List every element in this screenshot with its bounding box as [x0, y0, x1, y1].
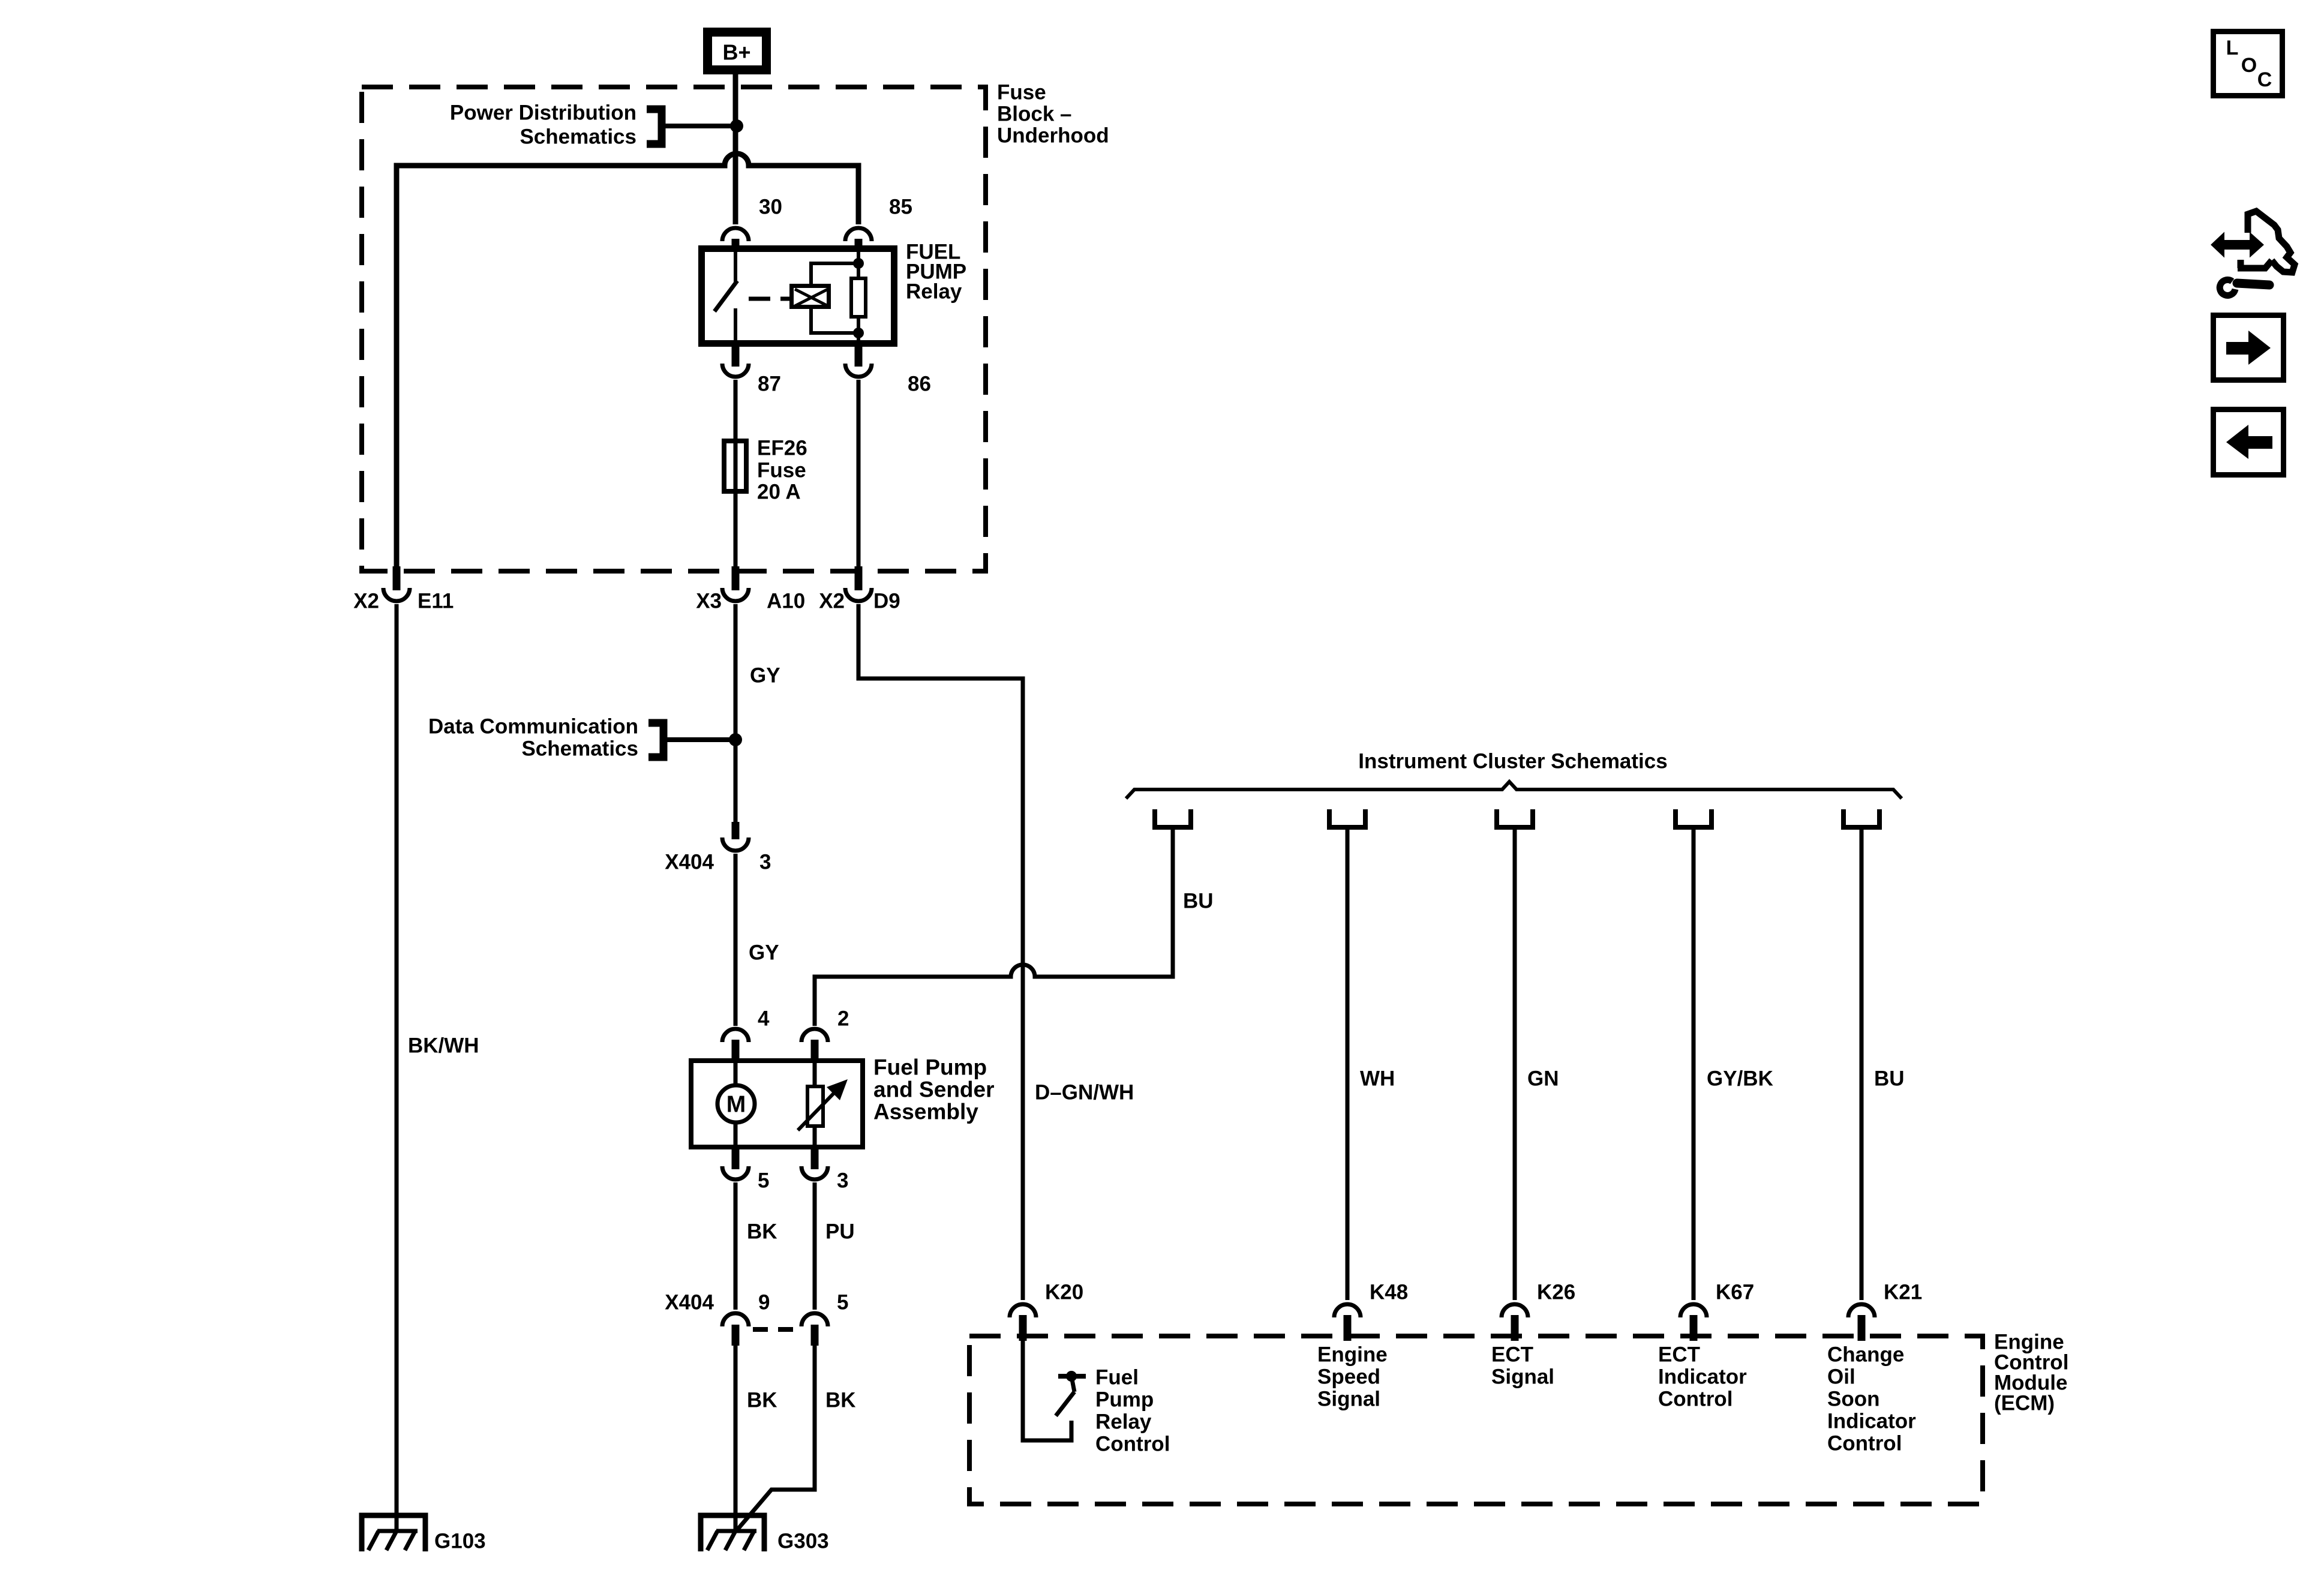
svg-text:Schematics: Schematics: [521, 737, 638, 761]
wire: D-GN/WH from D9 to ECM K20: [858, 604, 1134, 1300]
connector: fuel pump sender pin 3 terminal: [801, 1147, 848, 1193]
connector: X3 pin A10: [696, 566, 805, 613]
svg-text:D–GN/WH: D–GN/WH: [1035, 1081, 1134, 1104]
svg-text:Change: Change: [1827, 1343, 1904, 1367]
ground G303: [701, 1515, 829, 1553]
svg-text:Instrument Cluster Schematics: Instrument Cluster Schematics: [1358, 750, 1667, 773]
svg-text:Soon: Soon: [1827, 1388, 1879, 1411]
wire: GY from A10 to X404 pin 3: [735, 604, 780, 823]
fuse block - underhood (dashed outline): [362, 87, 986, 571]
svg-text:86: 86: [908, 373, 931, 396]
icon: LOC locator box: [2214, 32, 2283, 96]
svg-text:G303: G303: [777, 1530, 829, 1553]
relay switch contact (pin 30 to 87): [714, 249, 737, 343]
connector drop: instrument cluster WH drop: [1329, 809, 1365, 827]
svg-text:85: 85: [889, 196, 912, 219]
label: Fuse Block - Underhood: [997, 81, 1109, 148]
svg-text:3: 3: [759, 851, 771, 874]
label: Engine Speed Signal (K48): [1317, 1343, 1388, 1411]
icon: back arrow box: [2214, 410, 2284, 475]
svg-text:WH: WH: [1360, 1067, 1395, 1091]
svg-text:20 A: 20 A: [757, 481, 801, 504]
wire: BU from instrument cluster to fuel pump sender pin 2 (hops over D-GN/WH): [815, 827, 1214, 1026]
connector: ECM pin K20: [1010, 1281, 1083, 1341]
reference bracket: Power Distribution Schematics: [450, 101, 733, 149]
connector: relay pin 87 terminal: [722, 342, 781, 396]
svg-text:Relay: Relay: [906, 280, 962, 304]
svg-text:Control: Control: [1827, 1432, 1902, 1455]
power symbol B+ (battery feed box): [708, 32, 767, 70]
icon: connector end view with double arrow: [2212, 211, 2295, 272]
wire: BK from X404 pin 5 to ground G303 (jog): [737, 1346, 856, 1530]
wire: GY from X404 pin 3 to fuel pump pin 4: [735, 854, 779, 1026]
connector: X2 pin D9: [819, 566, 900, 613]
svg-text:2: 2: [837, 1007, 849, 1031]
svg-text:Underhood: Underhood: [997, 124, 1109, 148]
connector drop: instrument cluster BU drop: [1155, 809, 1191, 827]
svg-text:BK: BK: [747, 1389, 777, 1412]
svg-text:Relay: Relay: [1095, 1410, 1152, 1434]
fuse EF26 20A: [724, 437, 807, 504]
svg-text:Indicator: Indicator: [1827, 1410, 1916, 1433]
svg-text:B+: B+: [722, 40, 750, 65]
svg-text:BK: BK: [825, 1389, 856, 1412]
connector: fuel pump pin 5 terminal: [722, 1147, 769, 1193]
connector drop: instrument cluster BU drop 2: [1843, 809, 1879, 827]
svg-text:Indicator: Indicator: [1658, 1365, 1747, 1389]
connector drop: instrument cluster GN drop: [1497, 809, 1533, 827]
svg-text:GY: GY: [750, 664, 780, 688]
svg-text:GN: GN: [1527, 1067, 1559, 1091]
connector: X2 pin E11: [353, 566, 454, 613]
connector: X404 pin 9: [665, 1291, 770, 1346]
relay coil (box with X): [792, 263, 858, 333]
node: coil top junction dot: [853, 258, 864, 269]
connector: X404 pin 3: [665, 822, 771, 874]
svg-text:BK/WH: BK/WH: [408, 1034, 479, 1058]
svg-text:GY: GY: [749, 941, 779, 965]
connector: fuel pump sender pin 2 terminal: [801, 1007, 849, 1064]
reference bracket: Data Communication Schematics: [428, 715, 732, 761]
ECM driver: fuel pump relay control: [1023, 1341, 1170, 1456]
svg-text:K20: K20: [1045, 1281, 1083, 1304]
connector: relay pin 85 terminal: [845, 196, 912, 251]
svg-text:Schematics: Schematics: [520, 125, 636, 149]
svg-text:Fuse: Fuse: [997, 81, 1046, 104]
svg-text:Signal: Signal: [1317, 1388, 1380, 1411]
svg-text:E11: E11: [418, 590, 454, 613]
connector drop: instrument cluster GY/BK drop: [1676, 809, 1712, 827]
svg-text:K67: K67: [1716, 1281, 1754, 1304]
svg-text:X404: X404: [665, 851, 714, 874]
svg-text:9: 9: [758, 1291, 770, 1314]
svg-text:3: 3: [837, 1169, 848, 1193]
svg-text:Block –: Block –: [997, 103, 1072, 126]
sender variable resistor: [798, 1061, 848, 1147]
svg-text:Signal: Signal: [1491, 1365, 1554, 1389]
connector: fuel pump pin 4 terminal: [722, 1007, 770, 1064]
ground G103: [362, 1515, 486, 1553]
relay: FUEL PUMP Relay box: [702, 241, 967, 344]
fuel pump and sender assembly box: [691, 1055, 995, 1148]
connector: relay pin 30 terminal: [722, 196, 782, 251]
svg-text:87: 87: [758, 373, 781, 396]
icon: forward arrow box: [2214, 316, 2284, 380]
svg-text:ECT: ECT: [1491, 1343, 1533, 1367]
svg-text:BU: BU: [1183, 890, 1214, 913]
svg-text:Engine: Engine: [1317, 1343, 1388, 1367]
svg-text:Speed: Speed: [1317, 1365, 1380, 1389]
svg-text:Fuel Pump: Fuel Pump: [873, 1055, 987, 1080]
svg-text:X2: X2: [353, 590, 379, 613]
connector: ECM pin K48: [1334, 1281, 1408, 1341]
wire: B+ feed down to relay pin 30: [733, 74, 738, 224]
wire: PU from sender pin 3 to X404 pin 5: [815, 1182, 855, 1310]
connector: ECM pin K21: [1848, 1281, 1922, 1341]
wire: BK from X404 pin 9 to ground G303: [735, 1346, 777, 1531]
svg-text:K21: K21: [1884, 1281, 1922, 1304]
wire: WH from cluster to ECM K48: [1347, 827, 1395, 1300]
svg-text:PU: PU: [825, 1220, 855, 1244]
svg-text:Control: Control: [1658, 1388, 1733, 1411]
svg-text:30: 30: [759, 196, 782, 219]
brace: Instrument Cluster Schematics: [1126, 750, 1902, 799]
connector: ECM pin K26: [1502, 1281, 1575, 1341]
svg-text:4: 4: [758, 1007, 770, 1031]
node: data communication junction dot: [729, 733, 742, 746]
svg-text:(ECM): (ECM): [1994, 1392, 2055, 1415]
svg-text:G103: G103: [434, 1530, 486, 1553]
node: coil bottom junction dot: [853, 328, 864, 338]
svg-text:X404: X404: [665, 1291, 714, 1314]
svg-text:ECT: ECT: [1658, 1343, 1700, 1367]
svg-text:Fuel: Fuel: [1095, 1366, 1139, 1389]
relay parallel resistor: [851, 249, 866, 343]
connector: ECM pin K67: [1680, 1281, 1754, 1341]
svg-text:A10: A10: [767, 590, 805, 613]
wire: BK/WH ground branch from E11 up, over B+ wire (hop), down to relay pin 85: [397, 154, 858, 569]
svg-text:5: 5: [758, 1169, 769, 1193]
svg-text:D9: D9: [873, 590, 900, 613]
svg-text:O: O: [2241, 54, 2257, 77]
label: ECT Indicator Control (K67): [1658, 1343, 1747, 1411]
svg-text:Pump: Pump: [1095, 1388, 1154, 1412]
svg-text:M: M: [726, 1092, 746, 1118]
icon: wrench: [2220, 280, 2269, 295]
svg-text:Data Communication: Data Communication: [428, 715, 638, 739]
svg-text:Fuse: Fuse: [757, 459, 806, 482]
node: power distribution junction dot: [730, 119, 743, 133]
svg-text:BU: BU: [1874, 1067, 1905, 1091]
svg-text:Control: Control: [1095, 1433, 1170, 1456]
wire: GY/BK from cluster to ECM K67: [1694, 827, 1773, 1300]
relay actuation dashed link: [749, 297, 789, 301]
svg-text:Assembly: Assembly: [873, 1100, 978, 1124]
engine control module ECM (dashed outline): [969, 1336, 1983, 1504]
svg-text:X2: X2: [819, 590, 845, 613]
svg-text:C: C: [2257, 68, 2272, 91]
svg-text:K26: K26: [1537, 1281, 1575, 1304]
label: Change Oil Soon Indicator Control (K21): [1827, 1343, 1916, 1455]
svg-text:EF26: EF26: [757, 437, 807, 460]
svg-text:and Sender: and Sender: [873, 1077, 995, 1102]
svg-text:K48: K48: [1370, 1281, 1408, 1304]
svg-text:5: 5: [837, 1291, 848, 1314]
connector: relay pin 86 terminal: [845, 342, 931, 396]
wire: relay 86 down to D9: [857, 380, 861, 569]
wire: relay 87 through fuse EF26 down to A10: [734, 380, 738, 569]
svg-text:L: L: [2226, 37, 2239, 59]
motor M (fuel pump): [717, 1061, 755, 1147]
label: ECT Signal (K26): [1491, 1343, 1554, 1389]
wire: BK/WH from E11 to ground G103: [397, 604, 479, 1531]
wire: BU from cluster to ECM K21: [1861, 827, 1905, 1300]
svg-text:X3: X3: [696, 590, 722, 613]
wire: GN from cluster to ECM K26: [1515, 827, 1559, 1300]
svg-text:GY/BK: GY/BK: [1707, 1067, 1773, 1091]
svg-text:Power Distribution: Power Distribution: [450, 101, 636, 125]
svg-text:Oil: Oil: [1827, 1365, 1855, 1389]
wire: BK from pump pin 5 to X404 pin 9: [735, 1182, 777, 1310]
label: Engine Control Module (ECM): [1994, 1331, 2068, 1415]
svg-text:BK: BK: [747, 1220, 777, 1244]
connector: X404 pin 5: [801, 1291, 848, 1346]
dashed link between X404 connector halves: [753, 1327, 793, 1332]
